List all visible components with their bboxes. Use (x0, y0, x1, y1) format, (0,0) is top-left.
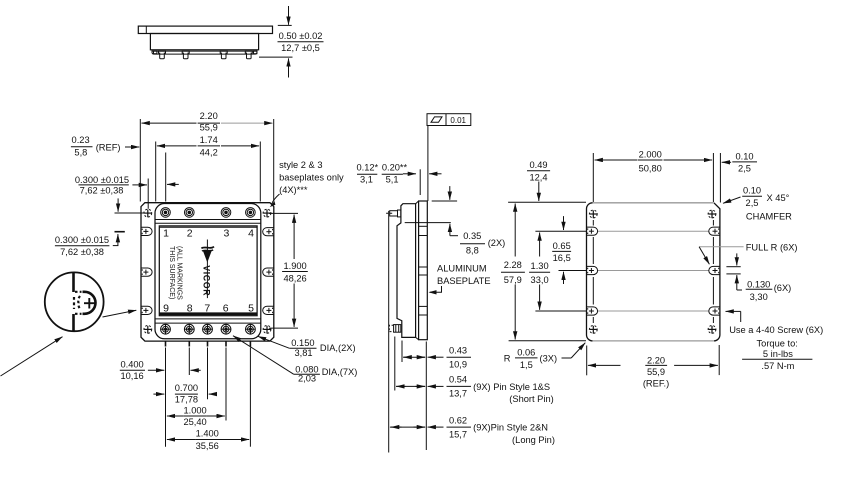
svg-text:0.23: 0.23 (72, 135, 90, 145)
svg-text:(9X)Pin Style 2&N: (9X)Pin Style 2&N (473, 423, 548, 433)
svg-text:15,7: 15,7 (449, 429, 467, 439)
svg-text:CHAMFER: CHAMFER (746, 211, 792, 221)
svg-text:Use a 4-40 Screw (6X): Use a 4-40 Screw (6X) (729, 325, 823, 335)
svg-text:0.54: 0.54 (449, 375, 467, 385)
svg-text:48,26: 48,26 (283, 273, 306, 283)
svg-text:7,62 ±0,38: 7,62 ±0,38 (80, 185, 124, 195)
svg-text:BASEPLATE: BASEPLATE (437, 276, 491, 286)
svg-text:3,1: 3,1 (360, 174, 373, 184)
svg-text:0.06: 0.06 (517, 347, 535, 357)
svg-text:baseplates only: baseplates only (279, 172, 344, 182)
svg-text:0.65: 0.65 (553, 241, 571, 251)
svg-text:5 in-lbs: 5 in-lbs (763, 349, 793, 359)
svg-text:10,9: 10,9 (449, 359, 467, 369)
svg-text:1: 1 (163, 227, 169, 239)
svg-text:(4X)***: (4X)*** (279, 185, 308, 195)
svg-text:2.20: 2.20 (647, 355, 665, 365)
svg-text:DIA,(7X): DIA,(7X) (322, 367, 358, 377)
svg-text:2,5: 2,5 (746, 198, 759, 208)
svg-text:2: 2 (187, 227, 193, 239)
svg-text:8: 8 (187, 303, 193, 315)
svg-text:16,5: 16,5 (553, 253, 571, 263)
svg-text:35,56: 35,56 (196, 441, 219, 451)
svg-text:0.49: 0.49 (529, 160, 547, 170)
svg-text:0.50 ±0.02: 0.50 ±0.02 (279, 31, 323, 41)
svg-text:0.130: 0.130 (747, 279, 770, 289)
svg-text:Torque to:: Torque to: (757, 338, 798, 348)
svg-text:(Short Pin): (Short Pin) (509, 394, 553, 404)
svg-text:VICOR: VICOR (201, 265, 211, 296)
svg-text:DIA,(2X): DIA,(2X) (320, 343, 356, 353)
svg-text:1.74: 1.74 (200, 135, 218, 145)
svg-text:(6X): (6X) (774, 283, 792, 293)
svg-text:(9X) Pin Style 1&S: (9X) Pin Style 1&S (473, 382, 550, 392)
svg-text:0.12*: 0.12* (356, 163, 378, 173)
svg-text:3: 3 (223, 227, 229, 239)
svg-text:0.01: 0.01 (450, 116, 466, 125)
svg-text:0.700: 0.700 (175, 383, 198, 393)
svg-text:55,9: 55,9 (647, 367, 665, 377)
svg-text:0.20**: 0.20** (382, 163, 408, 173)
svg-text:12,7 ±0,5: 12,7 ±0,5 (281, 43, 320, 53)
svg-text:8,8: 8,8 (466, 246, 479, 256)
svg-text:1.900: 1.900 (283, 261, 306, 271)
svg-text:0.10: 0.10 (735, 152, 753, 162)
svg-text:50,80: 50,80 (639, 164, 662, 174)
svg-text:2.28: 2.28 (504, 260, 522, 270)
svg-text:10,16: 10,16 (120, 371, 143, 381)
svg-text:55,9: 55,9 (200, 122, 218, 132)
svg-text:9: 9 (163, 303, 169, 315)
svg-text:5,8: 5,8 (74, 148, 87, 158)
svg-text:2.000: 2.000 (639, 150, 662, 160)
svg-text:2.20: 2.20 (200, 111, 218, 121)
svg-text:3,30: 3,30 (750, 292, 768, 302)
svg-text:0.300 ±0.015: 0.300 ±0.015 (55, 235, 109, 245)
svg-text:0.400: 0.400 (120, 359, 143, 369)
svg-text:0.62: 0.62 (449, 415, 467, 425)
svg-text:X 45°: X 45° (767, 193, 790, 203)
svg-text:THIS SURFACE): THIS SURFACE) (168, 246, 175, 299)
svg-text:1.000: 1.000 (183, 405, 206, 415)
svg-text:0.10: 0.10 (743, 186, 761, 196)
svg-text:0.43: 0.43 (449, 345, 467, 355)
svg-text:44,2: 44,2 (200, 148, 218, 158)
svg-text:R: R (504, 354, 511, 364)
svg-text:2,03: 2,03 (298, 374, 316, 384)
svg-text:5: 5 (248, 303, 254, 315)
svg-text:.57 N-m: .57 N-m (761, 361, 794, 371)
svg-text:5,1: 5,1 (386, 174, 399, 184)
svg-text:4: 4 (248, 227, 254, 239)
svg-text:style 2 & 3: style 2 & 3 (279, 160, 322, 170)
svg-text:(Long Pin): (Long Pin) (512, 435, 555, 445)
svg-text:7: 7 (204, 303, 210, 315)
svg-text:0.150: 0.150 (291, 338, 314, 348)
svg-text:6: 6 (223, 303, 229, 315)
svg-text:1,5: 1,5 (520, 360, 533, 370)
svg-text:25,40: 25,40 (183, 417, 206, 427)
svg-text:13,7: 13,7 (449, 389, 467, 399)
svg-text:7,62 ±0,38: 7,62 ±0,38 (60, 247, 104, 257)
svg-text:0.300 ±0.015: 0.300 ±0.015 (75, 175, 129, 185)
svg-text:(ALL MARKINGS: (ALL MARKINGS (175, 246, 182, 300)
svg-text:17,78: 17,78 (175, 394, 198, 404)
svg-text:12,4: 12,4 (529, 172, 547, 182)
svg-text:1.400: 1.400 (196, 429, 219, 439)
svg-text:FULL R (6X): FULL R (6X) (746, 242, 798, 252)
svg-text:(REF): (REF) (96, 143, 121, 153)
svg-text:57,9: 57,9 (504, 275, 522, 285)
svg-text:1.30: 1.30 (531, 261, 549, 271)
svg-text:3,81: 3,81 (294, 348, 312, 358)
svg-text:(3X): (3X) (540, 354, 558, 364)
svg-text:ALUMINUM: ALUMINUM (437, 264, 487, 274)
svg-text:0.35: 0.35 (463, 231, 481, 241)
svg-text:(2X): (2X) (488, 238, 506, 248)
svg-text:33,0: 33,0 (531, 275, 549, 285)
svg-text:2,5: 2,5 (738, 164, 751, 174)
svg-text:(REF.): (REF.) (643, 379, 669, 389)
